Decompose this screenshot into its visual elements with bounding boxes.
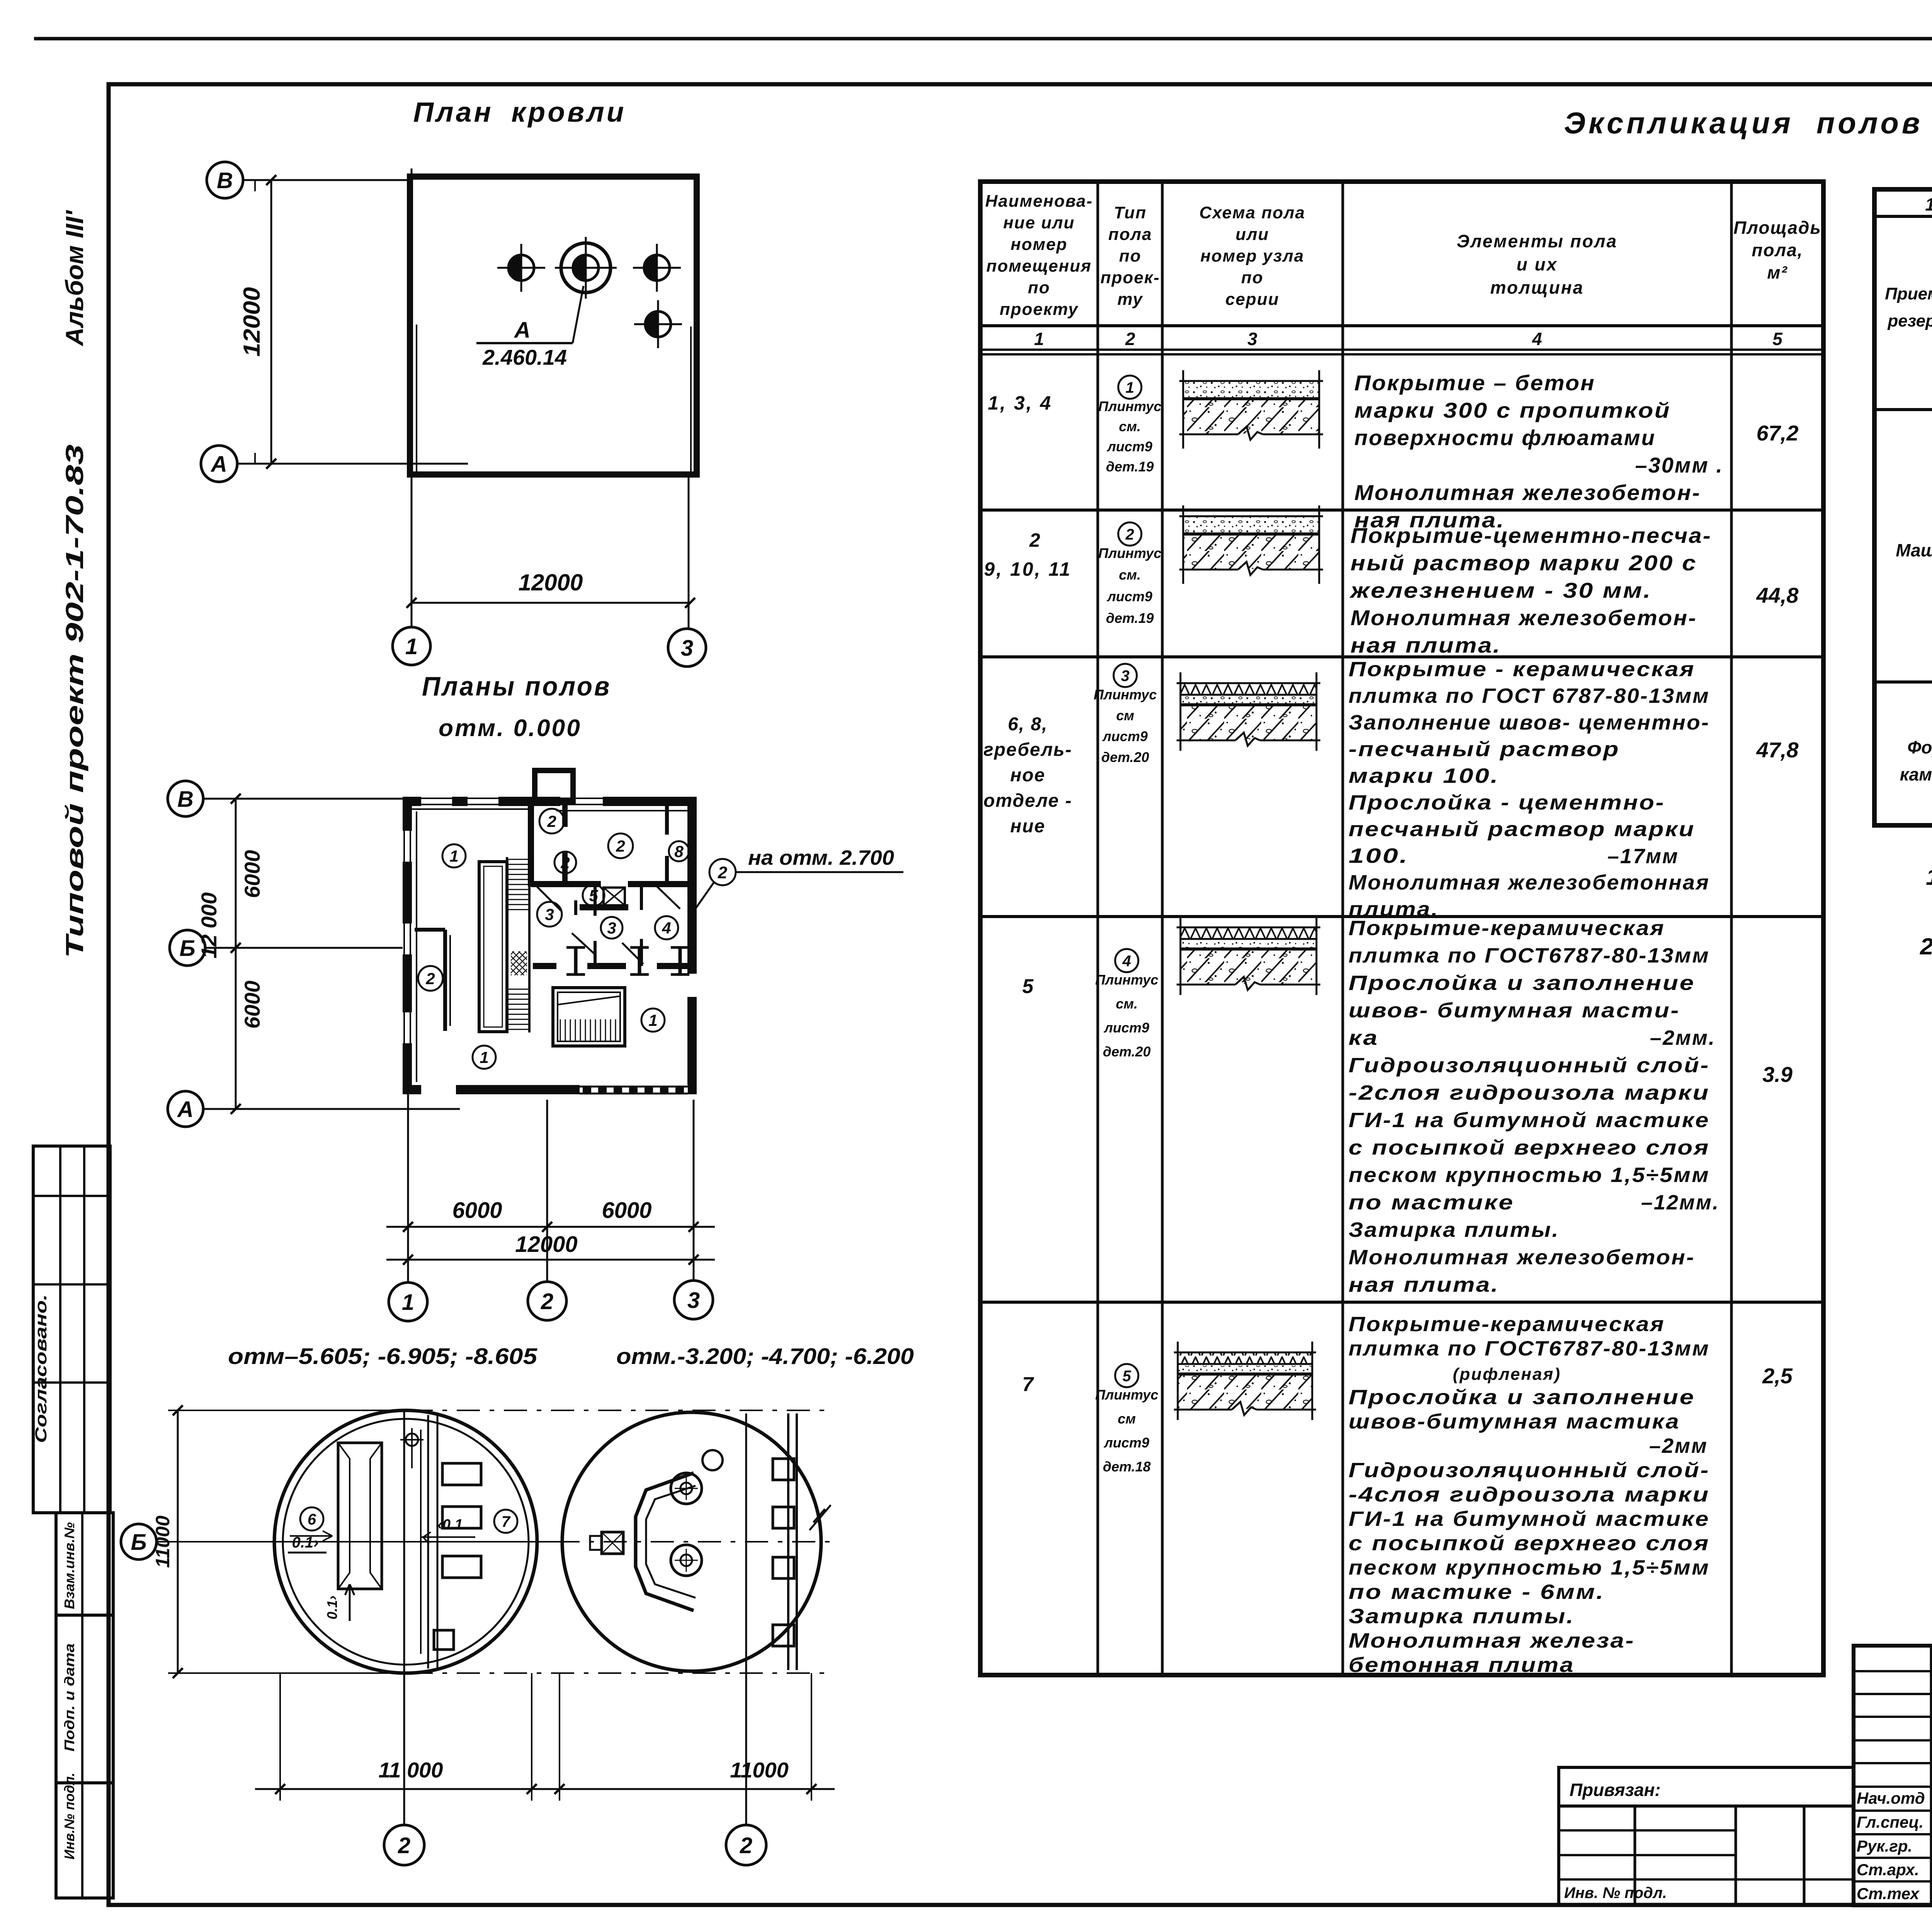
svg-text:(рифленая): (рифленая) — [1453, 1365, 1561, 1384]
svg-text:дет.18: дет.18 — [1103, 1459, 1151, 1475]
svg-text:лист9: лист9 — [1107, 439, 1152, 454]
attachment box Привязан — [1559, 1767, 1854, 1806]
svg-text:номер узла: номер узла — [1201, 247, 1304, 265]
svg-text:Затирка плиты.: Затирка плиты. — [1349, 1605, 1575, 1628]
svg-text:-2слоя гидроизола марки: -2слоя гидроизола марки — [1349, 1081, 1710, 1104]
floor plan axis circle Б — [170, 930, 205, 966]
svg-text:3: 3 — [545, 905, 554, 923]
svg-text:плитка по ГОСТ 6787-80-13мм: плитка по ГОСТ 6787-80-13мм — [1349, 684, 1710, 707]
axis circle Б of circular plan — [121, 1524, 156, 1560]
roof vent pipe 4 — [634, 300, 682, 348]
floor plan bottom axis circle 2 — [528, 1282, 566, 1320]
floor plan wall openings (windows) — [421, 797, 452, 806]
svg-text:2.460.14: 2.460.14 — [482, 345, 567, 369]
roof plan axis 1 extension line — [411, 168, 413, 627]
left plan axis 2 line and circle — [403, 1410, 405, 1825]
svg-text:лист9: лист9 — [1102, 728, 1148, 744]
floor plan right wall opening — [687, 974, 697, 997]
svg-text:5: 5 — [1122, 1367, 1131, 1384]
svg-text:6000: 6000 — [452, 1198, 502, 1223]
svg-text:отм. 0.000: отм. 0.000 — [439, 715, 582, 742]
svg-text:ние или: ние или — [1003, 213, 1075, 232]
svg-text:пола: пола — [1108, 225, 1152, 244]
svg-text:ная плита.: ная плита. — [1349, 1273, 1499, 1296]
roof plan axis circle 3 — [668, 629, 706, 667]
svg-text:или: или — [1235, 225, 1269, 244]
roof plan axis line A — [237, 463, 468, 465]
central table row 3 type circle 3 and plinth note — [1114, 664, 1137, 687]
svg-text:Монолитная железобетон-: Монолитная железобетон- — [1350, 605, 1697, 630]
svg-text:м²: м² — [1767, 262, 1787, 282]
svg-text:А: А — [177, 1097, 194, 1122]
roof vent pipe 2 (double circle) — [555, 237, 617, 299]
svg-text:1: 1 — [405, 634, 418, 659]
central table row 2 type circle 2 and plinth note — [1118, 522, 1141, 546]
svg-text:2: 2 — [616, 837, 625, 855]
svg-text:серии: серии — [1225, 290, 1279, 309]
svg-text:8: 8 — [674, 842, 684, 861]
ventilation shaft crossed box — [604, 888, 625, 905]
svg-text:9, 10, 11: 9, 10, 11 — [984, 558, 1072, 580]
svg-text:по мастике: по мастике — [1349, 1191, 1514, 1214]
svg-text:железнением - 30 мм.: железнением - 30 мм. — [1349, 578, 1652, 602]
svg-text:Экспликация полов: Экспликация полов — [1564, 106, 1923, 140]
svg-text:Инв.№ подл.: Инв.№ подл. — [61, 1773, 77, 1860]
svg-text:5: 5 — [1022, 975, 1034, 998]
circular plan horizontal axis line — [156, 1541, 556, 1543]
svg-text:–12мм.: –12мм. — [1641, 1191, 1719, 1214]
svg-text:1: 1 — [1126, 379, 1134, 396]
svg-text:67,2: 67,2 — [1757, 421, 1799, 445]
svg-text:1: 1 — [449, 847, 458, 865]
svg-text:ГИ-1 на битумной мастике: ГИ-1 на битумной мастике — [1349, 1109, 1710, 1132]
svg-text:марки 100.: марки 100. — [1349, 764, 1499, 787]
right table row lines — [1874, 408, 1932, 411]
central table row 4 type circle 4 and plinth note — [1115, 949, 1138, 972]
svg-text:6: 6 — [308, 1511, 316, 1528]
svg-text:1: 1 — [402, 1290, 414, 1315]
left plan room circle 6 — [300, 1507, 323, 1531]
svg-text:гребель-: гребель- — [983, 740, 1072, 760]
right plan edge recesses — [773, 1459, 794, 1480]
title block signatures grid — [1854, 1646, 1932, 1905]
central table column lines — [1097, 182, 1099, 1675]
svg-text:отделе -: отделе - — [983, 791, 1072, 811]
central table row 1 floor schema diagram — [1179, 370, 1323, 449]
svg-text:–2мм: –2мм — [1649, 1434, 1708, 1458]
svg-text:2: 2 — [1125, 526, 1134, 543]
floor plan left dimension line with 6000 6000 — [231, 794, 264, 1114]
svg-text:лист9: лист9 — [1104, 1435, 1149, 1451]
svg-text:-песчаный раствор: -песчаный раствор — [1349, 738, 1620, 761]
svg-text:Плинтус: Плинтус — [1095, 1387, 1158, 1403]
partition walls of upper rooms 2 and 8 — [562, 801, 568, 827]
svg-text:Нач.отд: Нач.отд — [1857, 1789, 1925, 1807]
sheet top border line — [34, 37, 1932, 41]
central table row lines — [980, 324, 1823, 327]
svg-text:ное: ное — [1010, 765, 1045, 786]
svg-text:песком крупностью 1,5÷5мм: песком крупностью 1,5÷5мм — [1349, 1163, 1710, 1187]
roof vent pipe 3 — [633, 244, 681, 292]
svg-text:6000: 6000 — [602, 1198, 651, 1223]
floor plan axis circle В — [168, 781, 203, 816]
svg-text:44,8: 44,8 — [1756, 583, 1799, 607]
door swing lines — [537, 887, 561, 911]
floor plan bottom axis circle 1 — [389, 1282, 427, 1321]
svg-text:Б: Б — [179, 936, 195, 961]
svg-text:Взам.инв.№: Взам.инв.№ — [61, 1522, 77, 1609]
svg-text:7: 7 — [502, 1513, 511, 1530]
svg-text:–17мм: –17мм — [1607, 845, 1679, 868]
svg-text:5: 5 — [1772, 329, 1783, 349]
interior wall vertical at stair — [528, 801, 534, 886]
svg-text:12 000: 12 000 — [197, 892, 221, 958]
central table row 1 type circle 1 and plinth note — [1118, 376, 1141, 399]
svg-text:песчаный раствор марки: песчаный раствор марки — [1349, 818, 1695, 841]
svg-text:Прослойка и заполнение: Прослойка и заполнение — [1349, 1386, 1695, 1409]
central table row 2 floor schema diagram — [1179, 505, 1323, 584]
stair treads upper — [507, 859, 529, 860]
floor plan roof hatch protrusion — [535, 770, 573, 801]
svg-text:по: по — [1241, 268, 1264, 287]
svg-text:3: 3 — [1247, 329, 1257, 349]
svg-text:Покрытие-керамическая: Покрытие-керамическая — [1349, 1313, 1665, 1336]
svg-text:2: 2 — [398, 1833, 410, 1858]
svg-text:2: 2 — [1125, 329, 1135, 349]
svg-text:А: А — [210, 452, 227, 477]
callout circle 2 на отм.2.700 — [696, 846, 903, 908]
svg-text:плитка по ГОСТ6787-80-13мм: плитка по ГОСТ6787-80-13мм — [1349, 1337, 1710, 1360]
svg-text:2: 2 — [547, 812, 556, 830]
roof plan vertical dimension line 12000 — [239, 175, 276, 469]
left margin signature table — [56, 1513, 113, 1898]
floor plan outer walls — [407, 801, 692, 1090]
roof plan axis circle 1 — [393, 627, 430, 665]
svg-text:отм.-3.200; -4.700; -6.200: отм.-3.200; -4.700; -6.200 — [616, 1344, 914, 1369]
lower-right stair with railing — [553, 988, 625, 1046]
svg-text:3: 3 — [1121, 667, 1129, 684]
central table row 5 floor schema diagram — [1174, 1342, 1316, 1420]
svg-text:Подп. и дата: Подп. и дата — [61, 1643, 77, 1752]
svg-text:–2мм.: –2мм. — [1650, 1026, 1716, 1049]
svg-text:поверхности флюатами: поверхности флюатами — [1354, 425, 1656, 450]
svg-text:12000: 12000 — [515, 1232, 577, 1257]
svg-text:с посыпкой верхнего слоя: с посыпкой верхнего слоя — [1349, 1136, 1710, 1159]
svg-text:дет.19: дет.19 — [1106, 459, 1154, 474]
svg-text:Покрытие – бетон: Покрытие – бетон — [1354, 371, 1595, 395]
svg-text:11000: 11000 — [152, 1515, 173, 1568]
floor plan bottom dimension lines — [386, 1094, 715, 1282]
svg-text:2,5: 2,5 — [1762, 1364, 1793, 1388]
svg-text:А: А — [514, 318, 531, 343]
svg-text:проек-: проек- — [1100, 268, 1160, 287]
left margin approval table — [32, 1146, 110, 1513]
svg-text:марки 300 с пропиткой: марки 300 с пропиткой — [1354, 398, 1671, 422]
svg-text:Монолитная железа-: Монолитная железа- — [1349, 1629, 1635, 1652]
central table row 5 type circle 5 and plinth note — [1115, 1364, 1138, 1387]
svg-text:4: 4 — [1532, 329, 1542, 349]
svg-text:песком крупностью 1,5÷5мм: песком крупностью 1,5÷5мм — [1349, 1556, 1710, 1579]
svg-text:2: 2 — [560, 854, 570, 872]
svg-text:пола,: пола, — [1752, 240, 1803, 260]
stair block tank rectangle — [479, 862, 507, 1032]
svg-text:Тип: Тип — [1114, 203, 1147, 222]
svg-text:Гидроизоляционный слой-: Гидроизоляционный слой- — [1349, 1054, 1710, 1077]
svg-text:Альбом III': Альбом III' — [61, 210, 88, 347]
svg-text:ный раствор марки 200 с: ный раствор марки 200 с — [1350, 551, 1697, 575]
svg-text:Планы полов: Планы полов — [422, 671, 611, 701]
roof plan axis 3 extension line — [688, 474, 690, 629]
interior partition between rooms 3 and 5 — [594, 884, 597, 916]
svg-text:47,8: 47,8 — [1756, 738, 1799, 762]
right plan break mark — [810, 1505, 831, 1530]
right plan small open circle — [702, 1450, 723, 1470]
svg-text:1, 3, 4: 1, 3, 4 — [988, 392, 1053, 414]
svg-text:Прослойка и заполнение: Прослойка и заполнение — [1349, 971, 1695, 995]
svg-text:Машзал: Машзал — [1896, 540, 1932, 560]
svg-text:2: 2 — [740, 1833, 752, 1858]
svg-text:Приемный: Приемный — [1885, 284, 1932, 303]
svg-text:0.1›: 0.1› — [324, 1595, 340, 1619]
svg-text:Элементы пола: Элементы пола — [1457, 231, 1617, 251]
bottom dimension 11000 left plan — [255, 1673, 556, 1801]
right explication table frame — [1874, 189, 1932, 825]
right plan straight wall — [787, 1413, 789, 1670]
svg-text:3: 3 — [687, 1288, 700, 1313]
svg-text:1: 1 — [1034, 329, 1044, 349]
room number circles — [442, 844, 466, 867]
svg-text:Наименова-: Наименова- — [985, 192, 1093, 211]
svg-text:100.: 100. — [1349, 844, 1409, 867]
svg-text:Монолитная железобетон-: Монолитная железобетон- — [1349, 1246, 1695, 1269]
svg-text:отм–5.605; -6.905; -8.605: отм–5.605; -6.905; -8.605 — [228, 1344, 537, 1369]
svg-text:помещения: помещения — [986, 257, 1092, 276]
svg-text:Типовой проект 902-1-70.83: Типовой проект 902-1-70.83 — [61, 444, 88, 958]
title block signature names — [1857, 1785, 1932, 1903]
equipment bar under room 5 — [580, 904, 628, 910]
svg-text:Заполнение швов- цементно-: Заполнение швов- цементно- — [1349, 711, 1710, 734]
svg-text:ка: ка — [1349, 1026, 1379, 1049]
roof detail callout A 2.460.14 — [476, 286, 583, 369]
svg-text:резервуар: резервуар — [1887, 311, 1932, 330]
roof plan axis line B — [243, 179, 410, 181]
right plan axis 2 line and circle — [745, 1413, 747, 1825]
svg-text:плитка по ГОСТ6787-80-13мм: плитка по ГОСТ6787-80-13мм — [1349, 944, 1710, 967]
left plan small top circle — [400, 1428, 423, 1468]
left plan dividing wall — [420, 1430, 422, 1654]
svg-text:см.: см. — [1119, 418, 1141, 434]
svg-text:Покрытие-керамическая: Покрытие-керамическая — [1349, 917, 1665, 940]
svg-text:дет.20: дет.20 — [1101, 749, 1149, 765]
svg-text:Плинтус: Плинтус — [1094, 687, 1156, 702]
svg-text:1: 1 — [480, 1048, 488, 1066]
svg-text:Фор-: Фор- — [1907, 737, 1932, 757]
right plan left nozzle — [602, 1532, 623, 1554]
roof plan inner parapet line right — [690, 327, 692, 473]
interior walls of lower-left room 2 — [443, 930, 447, 1031]
left circular plan outer wall — [274, 1410, 537, 1673]
svg-text:Согласовано.: Согласовано. — [32, 1294, 50, 1443]
svg-text:4: 4 — [662, 919, 671, 937]
svg-text:Монолитная железобетонная: Монолитная железобетонная — [1349, 871, 1710, 894]
svg-text:Плинтус: Плинтус — [1098, 398, 1161, 414]
left plan bottom chord/extension line — [168, 1672, 410, 1674]
svg-text:ГИ-1 на битумной мастике: ГИ-1 на битумной мастике — [1349, 1507, 1710, 1531]
roof plan axis circle А — [201, 446, 237, 482]
floor plan axis line В — [203, 798, 404, 800]
left plan sump channel — [338, 1443, 382, 1589]
corridor I-beam columns — [566, 947, 585, 975]
svg-text:1. Плинтусы выполнить из м: 1. Плинтусы выполнить из материала покры… — [1926, 864, 1932, 890]
svg-text:3.9: 3.9 — [1762, 1062, 1793, 1087]
central table row 3 floor schema diagram — [1177, 672, 1320, 751]
floor plan inner wall face lines — [412, 808, 529, 810]
svg-text:бетонная плита: бетонная плита — [1349, 1653, 1575, 1677]
right table header number row — [1874, 215, 1932, 218]
left plan equipment rectangles — [442, 1463, 481, 1485]
stair mid crosshatch mark — [511, 951, 527, 975]
left plan slope arrow vertical — [324, 1584, 354, 1621]
floor plan bottom door opening — [421, 1085, 456, 1094]
svg-text:6000: 6000 — [240, 981, 264, 1029]
svg-text:Затирка плиты.: Затирка плиты. — [1349, 1218, 1560, 1242]
svg-text:1: 1 — [1925, 194, 1932, 214]
svg-text:6000: 6000 — [240, 850, 264, 898]
left plan top chord/extension line — [168, 1410, 410, 1411]
svg-text:номер: номер — [1010, 235, 1067, 254]
svg-text:11000: 11000 — [730, 1758, 789, 1782]
svg-text:ние: ние — [1010, 816, 1045, 837]
svg-text:12000: 12000 — [239, 287, 265, 357]
central table row 3 label 6,8 гребельное отделение — [983, 714, 1072, 837]
interior wall horizontal corridor — [533, 963, 692, 969]
svg-text:Площадь: Площадь — [1733, 218, 1821, 238]
svg-text:Схема пола: Схема пола — [1199, 203, 1305, 222]
roof vent pipe 1 — [497, 244, 545, 292]
svg-text:ная плита.: ная плита. — [1350, 633, 1501, 657]
svg-text:по мастике - 6мм.: по мастике - 6мм. — [1349, 1580, 1605, 1604]
svg-text:-4слоя гидроизола марки: -4слоя гидроизола марки — [1349, 1483, 1710, 1506]
svg-text:дет.19: дет.19 — [1106, 610, 1154, 626]
left plan room circle 7 — [494, 1510, 517, 1533]
svg-text:швов- битумная масти-: швов- битумная масти- — [1349, 999, 1680, 1022]
floor plan bottom axis circle 3 — [674, 1281, 713, 1319]
svg-text:В: В — [217, 168, 233, 193]
right plan U-shaped pipe bracket — [636, 1473, 694, 1611]
central explication table frame — [980, 182, 1823, 1675]
floor plan axis circle А — [168, 1091, 203, 1127]
svg-text:дет.20: дет.20 — [1103, 1044, 1151, 1060]
roof plan axis circle В — [207, 162, 243, 198]
svg-text:12000: 12000 — [519, 570, 583, 595]
svg-text:2: 2 — [425, 969, 435, 988]
svg-text:5: 5 — [589, 886, 598, 905]
svg-text:В: В — [177, 787, 194, 812]
svg-text:Плинтус: Плинтус — [1098, 545, 1161, 561]
left plan vertical dimension 11000 — [152, 1405, 183, 1678]
svg-text:7: 7 — [1022, 1373, 1034, 1396]
svg-text:Б: Б — [131, 1530, 146, 1555]
svg-text:лист9: лист9 — [1107, 588, 1152, 604]
interior partition between rooms 3 and 4 — [640, 884, 643, 910]
svg-text:2: 2 — [1029, 529, 1042, 551]
svg-text:2. Данный лист рассматриват: 2. Данный лист рассматривать совместно с… — [1920, 934, 1932, 959]
svg-text:см: см — [1116, 707, 1134, 723]
svg-text:камера: камера — [1900, 764, 1932, 784]
svg-text:по: по — [1119, 247, 1141, 265]
floor plan axis line А — [203, 1108, 460, 1110]
svg-text:проекту: проекту — [1000, 300, 1078, 319]
roof plan inner parapet line left — [416, 325, 417, 473]
svg-text:11 000: 11 000 — [378, 1758, 443, 1782]
stair treads lower — [507, 989, 529, 990]
floor plan bottom window band with hatch — [580, 1085, 688, 1094]
svg-text:швов-битумная мастика: швов-битумная мастика — [1349, 1410, 1680, 1433]
svg-text:Рук.гр.: Рук.гр. — [1857, 1837, 1912, 1855]
stair flight rails — [506, 857, 508, 1032]
svg-text:Ст.тех: Ст.тех — [1857, 1884, 1920, 1903]
svg-text:см.: см. — [1119, 567, 1141, 583]
right circular plan outer wall — [562, 1412, 821, 1671]
svg-text:6, 8,: 6, 8, — [1008, 714, 1048, 735]
svg-text:Плинтус: Плинтус — [1095, 972, 1158, 988]
svg-text:Покрытие-цементно-песча-: Покрытие-цементно-песча- — [1350, 523, 1712, 548]
svg-text:2: 2 — [718, 863, 728, 882]
svg-text:см: см — [1118, 1411, 1136, 1427]
roof slab outline — [410, 177, 697, 474]
svg-text:3: 3 — [681, 636, 693, 661]
svg-text:см.: см. — [1116, 996, 1138, 1012]
svg-text:ту: ту — [1117, 290, 1143, 309]
central table row 4 floor schema diagram — [1177, 917, 1320, 995]
floor plan axis line Б — [205, 947, 406, 949]
svg-text:Инв. № подл.: Инв. № подл. — [1564, 1884, 1667, 1901]
svg-text:2: 2 — [541, 1289, 553, 1314]
svg-text:Монолитная железобетон-: Монолитная железобетон- — [1354, 480, 1701, 505]
svg-text:Привязан:: Привязан: — [1570, 1780, 1661, 1800]
attachment sub table — [1559, 1806, 1854, 1905]
right plan pump circles — [671, 1473, 702, 1504]
svg-text:3: 3 — [607, 919, 616, 937]
svg-text:на отм. 2.700: на отм. 2.700 — [748, 846, 894, 869]
svg-text:Гл.спец.: Гл.спец. — [1857, 1813, 1923, 1831]
svg-text:Ст.арх.: Ст.арх. — [1857, 1861, 1919, 1879]
roof plan bottom dimension line 12000 — [406, 570, 695, 608]
svg-text:‹0.1: ‹0.1 — [437, 1517, 463, 1533]
svg-text:4: 4 — [1122, 952, 1131, 969]
svg-text:по: по — [1028, 278, 1050, 297]
svg-text:1: 1 — [648, 1011, 657, 1029]
svg-text:Покрытие - керамическая: Покрытие - керамическая — [1349, 658, 1695, 681]
svg-text:с посыпкой верхнего слоя: с посыпкой верхнего слоя — [1349, 1532, 1710, 1555]
bottom dimension 11000 right plan — [537, 1673, 835, 1801]
svg-text:лист9: лист9 — [1104, 1020, 1149, 1036]
svg-text:–30мм .: –30мм . — [1635, 453, 1723, 477]
svg-text:Гидроизоляционный слой-: Гидроизоляционный слой- — [1349, 1459, 1710, 1482]
svg-text:и их: и их — [1517, 254, 1558, 274]
interior wall horizontal upper — [531, 881, 692, 887]
svg-text:План кровли: План кровли — [413, 97, 626, 128]
central table header texts — [985, 192, 1821, 319]
svg-text:Прослойка - цементно-: Прослойка - цементно- — [1349, 791, 1665, 814]
left plan slope mark 0.1 — [288, 1531, 332, 1553]
svg-text:толщина: толщина — [1490, 277, 1584, 298]
